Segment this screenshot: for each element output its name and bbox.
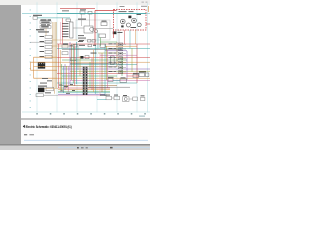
device E4 text [119,57,121,60]
wire stub E1 [123,43,126,45]
wire harness riser 7 [67,66,69,92]
label P2 [38,86,47,87]
wire harness run 19 [57,82,137,84]
wire teal V1-V2 [113,80,120,82]
wire harness run 16 [62,75,117,77]
mid device 5 [85,56,89,59]
breaker CB1 [80,11,85,14]
wire harness riser 1 [58,44,60,88]
wire tan from K2 [45,28,47,35]
grid fold line [136,3,138,113]
wire red riser to top [62,18,64,44]
row label 1 [30,9,31,12]
wire dark run 2 [70,62,117,64]
label fuse F2 [40,55,45,58]
label switch S4L [40,50,45,53]
grid bottom line [22,111,150,113]
wire gray S1 to cluster [93,28,114,30]
toolbar speck 2 [146,1,148,3]
label PS1 [133,72,139,75]
switch S4L [45,51,52,54]
row label 14 [30,93,31,96]
wire tan riser bundle [54,22,56,88]
label mid row3 [91,52,97,55]
wire harness run 13 [62,68,150,70]
column label 9 [144,113,146,114]
relay K3 pins [38,62,41,65]
wire red top bus [60,8,95,10]
label R-stack 1b [114,42,117,45]
connector P1 pin tick [83,80,84,83]
caption back arrow [23,125,25,128]
wire drop from cluster 1 [118,30,120,44]
resistor pack RP1 [111,56,115,65]
note above P2 b [47,79,52,82]
wire dark run 3 [88,86,130,88]
label B7 [141,94,145,97]
wire M2-B4 link [129,98,133,100]
wire teal to Y1 [97,98,106,100]
toolbar speck 1 [142,1,144,3]
module M1 outline [76,20,110,40]
wire gray left run [30,41,52,43]
device E2 text [119,48,121,51]
wire orange corner stub [148,6,150,12]
label Y1 [106,94,110,97]
valve V2 [120,79,127,82]
row label 9 [30,61,31,64]
label mid row2 b [93,44,96,47]
wire red vertical drop [94,11,96,46]
device E5 [119,61,123,64]
wire harness run 1 [100,41,117,43]
wire tan riser bundle [53,22,55,88]
wire red drop from cluster [113,30,115,38]
label lead [36,29,44,30]
row label 12 [30,80,31,83]
relay K1 [40,21,51,24]
grid fold line [36,3,38,113]
wire gray F3 out [44,94,59,96]
label relay K2 b [47,24,50,25]
label R-stack 6a [109,65,113,68]
switch S2 [45,36,52,39]
top ruler tick [36,2,39,5]
caption sub mark 1 [24,134,27,135]
wire red cluster right stub [146,23,150,25]
gauge G2 [126,23,130,27]
wire harness riser 11 [74,44,76,86]
wire gray stub [43,28,45,31]
row label 8 [30,54,31,57]
label S5 [139,71,146,72]
connector P1 column B [86,67,88,96]
wire harness riser 8 [69,42,71,85]
wire red to S5 [127,75,140,77]
label R-stack 5b [114,61,117,64]
label R-stack 7b [114,70,117,73]
label V2 [121,76,126,79]
wire tan S3 to bus [52,45,70,47]
wire harness run 10 [57,61,150,63]
switch S3 [45,41,52,44]
bundle label 3 [70,83,73,86]
mid device 2 [92,40,95,42]
buzzer H1 (black) [113,31,117,34]
warning lamp block 2 [121,25,123,27]
relay K2 text [41,26,49,27]
lead label a [37,28,44,31]
bottom strip blue rule [58,146,150,148]
fuse F3 [36,94,44,97]
indicator lamp L1 [90,27,94,31]
wire teal net A [38,17,71,19]
wire harness riser 5 [64,64,66,90]
label fuse F1 [33,15,42,16]
fuse F2 [45,56,52,59]
connector J2 [70,22,73,38]
label R-stack 2a [109,47,113,50]
device E6 [119,66,123,69]
grid horizontal line [22,13,150,15]
wire harness run 14 [70,70,150,72]
grid fold line [96,3,98,113]
bundle label 4 [60,90,63,93]
connector P1 pin tick [83,67,84,70]
gauge G3 [132,18,137,23]
switch S7 [46,87,54,91]
wire harness riser 25 [136,44,138,83]
mid device 4 [100,44,106,47]
label CB1 [80,8,86,11]
wire harness riser 12 [75,42,77,84]
pin label J2-2 [62,25,69,28]
row label 2 [30,15,31,18]
bundle label 6 [72,89,75,92]
row label 11 [30,74,31,77]
wire gray CB1 drop [81,14,83,26]
wire harness riser 15 [89,62,91,88]
top ruler tick [116,2,119,5]
label cluster [119,10,127,13]
gauge G1 needle [122,21,124,22]
column label 3 [63,113,65,114]
wire stub E7 [123,71,126,73]
label diode D1 [40,45,45,48]
wire orange run 5 [34,77,58,79]
pin label J2-6 [62,35,69,38]
connector P1 pin tick [83,86,84,89]
fuse F1 [33,17,38,20]
title block mark [139,116,145,117]
label cluster 2 [129,10,134,13]
wire teal top bus [57,13,146,15]
wire harness run 7 [100,54,137,56]
wire orange run 3 [34,66,61,68]
row label 10 [30,67,31,70]
wire orange left riser [33,57,35,78]
label B5 [102,20,107,23]
grid fold line [76,3,78,113]
device E1 [119,43,123,46]
label R-stack 3a [109,52,113,55]
device E5 text [119,61,121,64]
wire harness run 15 [57,73,137,75]
connector P2 (black) [38,88,44,93]
mid device 1 [88,40,91,42]
column label 7 [117,113,119,114]
wire harness run 12 [60,66,117,68]
label R-stack 6b [114,65,117,68]
gauge G1 [121,19,126,24]
device E3 [119,52,123,55]
wire harness riser 4 [62,66,64,93]
instrument cluster boundary (red dashed) [114,10,147,31]
device E6 text [119,66,121,69]
connector P1 column A [83,67,85,96]
wire orange run 1 [34,56,58,58]
sender B7 [141,97,145,100]
label G3 [131,26,137,29]
bundle label 5 [66,92,70,95]
warning lamp block [128,16,131,19]
label G4 [137,13,142,16]
wire harness run 25 [58,93,105,95]
wire orange far-left riser [30,62,32,70]
row label 15 [30,100,31,103]
wire harness riser 28 [131,48,133,72]
label V1 [108,76,114,79]
pin label J2-4 [62,30,69,33]
label R-stack 3b [114,52,117,55]
row label 5 [30,35,31,38]
bottom strip marks [77,147,79,149]
wire tan P2 out [44,88,58,90]
wire harness riser 20 [101,53,103,92]
mid device 3 [88,44,91,46]
wire tan riser bundle [55,22,57,88]
wire dark run 1 [62,49,122,51]
relay K2 [40,26,51,29]
label R-stack 7a [109,70,113,73]
row label 4 [30,28,31,31]
diode D1 [45,46,52,49]
bundle label 2 [64,85,68,88]
gauge G3 needle [133,20,135,21]
wire harness run 6 [98,52,117,54]
connector P1 pin tick [83,70,84,73]
row label 3 [30,22,31,25]
label relay K1 [41,19,47,20]
connector P1 pin tick [83,78,84,81]
wire harness run 24 [58,92,110,94]
sender B4 [133,97,138,101]
wire harness run 8 [57,57,150,59]
connector P1 pin tick [83,72,84,75]
note text a [78,34,84,37]
grid fold line [116,3,118,113]
label R-stack 4a [109,56,113,59]
switch S5 [139,73,145,77]
column label 2 [50,113,52,114]
switch S1 [84,26,93,33]
wire gray J2 to S1 [73,27,84,29]
wire stub E6 [123,66,126,68]
wire pink riser to top [60,22,62,44]
wire green module drop [100,38,102,47]
note above module [62,9,69,12]
pin label J2-3 [62,27,69,30]
wire harness riser 22 [105,46,107,80]
wire harness run 5 [105,50,127,52]
wire harness run 11 [70,64,137,66]
wire harness run 17 [57,77,150,79]
device E7 text [119,71,121,74]
sensor B6 [99,34,106,38]
wire drop from cluster 4 [135,30,137,44]
wire harness riser 2 [59,50,61,90]
corner note [141,5,147,8]
wire harness riser 18 [94,45,96,94]
device E7 [119,71,123,74]
sensor B1 [62,45,68,48]
wire harness run 26 [58,95,100,97]
label mid row1 a [79,39,84,42]
wire harness riser 23 [107,50,109,88]
row label 16 [30,106,31,109]
label bottom row [100,95,107,96]
label relay K2 [41,24,46,25]
pin label J2-5 [62,33,69,36]
wire harness riser 9 [71,44,73,80]
row label 6 [30,41,31,44]
grid fold line [56,3,58,113]
wire harness run 22 [58,89,110,91]
switch S6 [146,73,149,77]
sensor B2 [62,52,68,55]
wire stub E3 [123,53,126,55]
wire harness riser 17 [93,50,95,92]
wire harness riser 27 [121,57,123,76]
note text b [78,37,86,40]
wire tan riser bundle [52,22,54,88]
wire stub E5 [123,62,126,64]
lead label b [39,31,48,34]
row label 13 [30,87,31,90]
valve V1 [108,79,113,82]
label R-stack 4b [114,56,117,59]
label R-stack 2b [114,47,117,50]
sensor B3 [71,58,77,61]
wire tan S2 to bus [52,39,77,41]
top ruler tick [96,2,99,5]
label M2 [123,94,127,97]
wire harness riser 6 [66,66,68,88]
connector P1 pin tick [83,91,84,94]
aux device above J2 [66,19,71,21]
wire orange run 4 [31,69,58,71]
label relay K1 b [48,19,52,20]
device E1 text [119,43,121,46]
solenoid Y2 [114,96,120,100]
wire harness riser 19 [99,53,101,96]
device E3 text [119,52,121,55]
wire tan drop to F3 [54,89,56,94]
wire harness run 2 [57,43,150,45]
breaker CB2 [88,11,92,14]
wire harness riser 21 [104,44,106,96]
caption sub mark 2 [29,134,34,135]
thin blue rule [24,139,148,141]
column label 8 [131,113,133,114]
wire harness riser 14 [79,56,81,76]
relay K3 (black) [38,62,45,69]
wire harness riser 16 [91,58,93,90]
wire harness riser 10 [72,44,74,83]
label R-stack 1a [109,42,113,45]
note text c [78,40,83,43]
wire drop from cluster 3 [129,30,131,48]
sensor B5 [101,22,107,26]
label buzzer H1 [118,31,123,34]
indicator lamp L2 [94,30,97,33]
top ruler tick [76,2,79,5]
connector P1 pin tick [83,83,84,86]
column label 1 [36,113,38,114]
svg-text:Electric Schematic: 600411-000: Electric Schematic: 600411-00091 (t1) [26,125,73,129]
wire stub E4 [123,57,126,59]
top ruler tick [136,2,139,5]
wire harness riser 26 [116,42,118,67]
wire harness riser 13 [77,44,79,70]
wire orange run 2 [31,61,58,63]
motor M2 [123,97,130,102]
wire harness riser 24 [126,51,128,80]
label R-stack 5a [109,61,113,64]
wire harness run 23 [58,90,110,92]
label B1 b [70,44,73,47]
motor M2 symbol [124,98,127,101]
label mid row2 a [79,44,85,47]
wire harness run 4 [57,47,150,49]
connector P1 pin tick [83,88,84,91]
column label 6 [104,113,106,114]
column label 5 [90,113,92,114]
label Y2 [114,94,118,97]
wire harness run 20 [62,84,117,86]
corner note 2 [120,5,125,8]
gauge G4 [137,23,141,27]
label switch S3 [40,40,45,43]
row label 7 [30,48,31,51]
wire harness run 9 [62,59,127,61]
note above P2 c [40,82,47,85]
label F3 [45,91,51,94]
wire harness run 3 [105,45,137,47]
label lead 2 [38,31,49,32]
device E2 [119,48,123,51]
column label 4 [77,113,79,114]
sensor B1c [73,44,77,47]
relay K1 text [41,22,50,23]
wire Y1-Y2 link [112,97,115,99]
wire teal module drop [97,33,99,48]
bundle label 1 [59,84,62,87]
wire harness riser 3 [61,64,63,91]
label module M1 [78,19,86,20]
solenoid Y1 [106,96,112,100]
pin label J2-1 [62,22,69,25]
